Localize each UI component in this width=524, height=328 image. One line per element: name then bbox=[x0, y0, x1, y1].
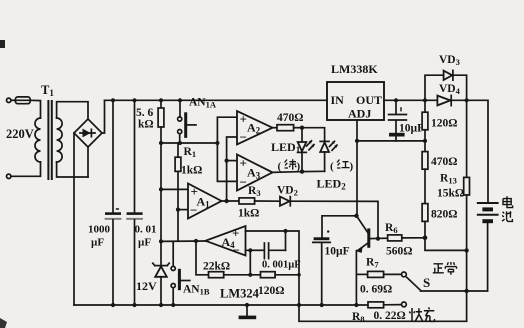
svg-text:0. 001µF: 0. 001µF bbox=[262, 260, 301, 271]
svg-text:15kΩ: 15kΩ bbox=[437, 188, 464, 200]
wire LED top link bbox=[302, 128, 325, 142]
capacitor 10uF output bbox=[389, 100, 407, 141]
wire OUT line bbox=[384, 99, 437, 101]
svg-text:kΩ: kΩ bbox=[138, 119, 154, 131]
scan edge artifact top-left bbox=[0, 40, 5, 48]
wire bridge bottom vertex bbox=[87, 147, 89, 177]
svg-text:10µF: 10µF bbox=[325, 246, 350, 258]
wire bridge negative (left vertex) down bbox=[73, 133, 75, 305]
wire LED bottom link bbox=[302, 170, 325, 172]
label (green) for LED1 bbox=[278, 159, 301, 172]
LED2 red bbox=[320, 141, 337, 172]
zener diode VD 12V bbox=[153, 263, 169, 305]
label battery (dian chi) bbox=[502, 196, 513, 221]
resistor 820 ohm chain bbox=[422, 204, 428, 238]
svg-text:470Ω: 470Ω bbox=[431, 156, 457, 168]
label (red) for LED2 bbox=[330, 160, 354, 173]
wire A4 output line bbox=[161, 240, 206, 242]
svg-text:ADJ: ADJ bbox=[348, 107, 371, 121]
wire A4 plus to ground bbox=[246, 231, 300, 305]
op-amp A2 bbox=[237, 111, 273, 145]
wire return outer bottom bbox=[299, 305, 467, 321]
capacitor 0.001uF bbox=[250, 243, 285, 259]
wire 22k to node bbox=[224, 274, 261, 276]
wire A1 minus input bbox=[178, 209, 188, 211]
resistor R7 0.69 bbox=[356, 271, 401, 277]
svg-text:120Ω: 120Ω bbox=[431, 118, 457, 130]
ground symbol bbox=[239, 305, 257, 319]
pushbutton AN1B bbox=[171, 241, 190, 305]
fuse FU bbox=[15, 97, 30, 104]
wire ADJ vertical to collector bbox=[356, 120, 358, 216]
svg-text:12V: 12V bbox=[136, 279, 157, 293]
svg-text:LM324: LM324 bbox=[220, 287, 260, 301]
wire 22k feedback leg bbox=[196, 241, 209, 275]
wire A1 plus input from reference bbox=[161, 188, 188, 190]
wire node AN1A horizontal bbox=[161, 142, 217, 144]
op-amp A1 bbox=[188, 184, 222, 219]
svg-text:22kΩ: 22kΩ bbox=[203, 261, 230, 273]
wire A1 output line bbox=[222, 200, 240, 202]
svg-text:220V: 220V bbox=[6, 127, 34, 141]
wire bbox=[255, 200, 280, 202]
wire top rail bbox=[105, 99, 328, 101]
switch contact normal bbox=[402, 272, 407, 277]
pushbutton AN1A bbox=[178, 100, 196, 143]
wire VD3 branch bbox=[425, 75, 444, 100]
svg-text:): ) bbox=[297, 161, 301, 173]
svg-text:IN: IN bbox=[331, 93, 345, 107]
svg-text:5. 6: 5. 6 bbox=[136, 107, 154, 119]
diode VD4 bbox=[437, 95, 451, 105]
svg-text:1kΩ: 1kΩ bbox=[181, 165, 202, 177]
resistor 120 ohm chain bbox=[422, 100, 428, 151]
wire bridge positive to top rail bbox=[102, 100, 105, 133]
capacitor 0.01uF bbox=[126, 100, 143, 305]
resistor R8 0.22 bbox=[368, 302, 401, 308]
resistor 120 ohm A4 bbox=[261, 272, 276, 278]
svg-text:µF: µF bbox=[91, 237, 104, 249]
svg-text:+: + bbox=[232, 226, 239, 241]
svg-text:10µF: 10µF bbox=[399, 123, 424, 135]
terminal input top bbox=[7, 98, 11, 102]
wire VD2 to transistor base bbox=[290, 201, 378, 238]
wire bus AN1A node to A2+ and A3- bbox=[217, 117, 237, 181]
wire divider bottom to R13 line bbox=[425, 238, 467, 251]
resistor 22k bbox=[209, 272, 224, 278]
svg-text:+: + bbox=[240, 156, 247, 171]
wire 120 to ground leg bbox=[275, 274, 299, 276]
svg-text:120Ω: 120Ω bbox=[258, 285, 284, 297]
resistor R13 15k bbox=[464, 100, 470, 321]
svg-text:+: + bbox=[240, 112, 247, 127]
diode VD3 bbox=[444, 70, 453, 80]
wire bottom rail bbox=[74, 304, 368, 306]
wire OUT line after VD4 bbox=[451, 100, 488, 202]
svg-text:560Ω: 560Ω bbox=[386, 246, 412, 258]
svg-text:0. 69Ω: 0. 69Ω bbox=[360, 284, 392, 296]
wire VD3 branch right bbox=[453, 75, 467, 100]
svg-text:): ) bbox=[350, 161, 354, 173]
regulator LM338K bbox=[327, 82, 384, 120]
transformer T1 secondary winding bbox=[57, 118, 63, 162]
wire A3 plus branch bbox=[227, 160, 237, 162]
wire ADJ junction line bbox=[357, 140, 425, 142]
switch contact fast-charge bbox=[402, 302, 407, 307]
capacitor 1000uF bbox=[105, 100, 122, 305]
wire bbox=[11, 162, 41, 176]
svg-text:1000: 1000 bbox=[88, 224, 111, 236]
terminal input bottom bbox=[7, 174, 11, 178]
bridge rectifier bbox=[74, 119, 102, 147]
svg-text:820Ω: 820Ω bbox=[431, 209, 457, 221]
label fast charge (kuai chong) bbox=[409, 307, 434, 321]
resistor R3 bbox=[239, 198, 255, 204]
resistor 5.6k vertical bbox=[158, 100, 164, 265]
svg-text:−: − bbox=[240, 175, 247, 190]
op-amp A4 bbox=[206, 226, 246, 256]
scan edge artifact bottom-left bbox=[0, 318, 7, 328]
LED1 green bbox=[298, 128, 315, 172]
svg-text:(: ( bbox=[330, 161, 334, 173]
wire bus A1 out to A2- and A3+ bbox=[227, 137, 237, 201]
capacitor 10uF base bbox=[313, 216, 357, 305]
wire secondary bottom to bridge bbox=[57, 162, 88, 177]
svg-text:LM338K: LM338K bbox=[331, 62, 378, 76]
svg-text:470Ω: 470Ω bbox=[277, 112, 303, 124]
wire A4 minus node leg bbox=[246, 250, 251, 274]
svg-text:OUT: OUT bbox=[356, 93, 382, 107]
svg-text:(: ( bbox=[278, 161, 282, 173]
wire secondary top to bridge bbox=[57, 102, 88, 119]
svg-text:1kΩ: 1kΩ bbox=[238, 208, 259, 220]
wire bbox=[30, 100, 40, 118]
label normal (zheng chang) bbox=[433, 262, 457, 275]
switch S blade bbox=[407, 277, 421, 290]
diode VD2 bbox=[280, 197, 290, 206]
resistor 470 ohm at A2 output bbox=[273, 125, 303, 131]
op-amp A3 bbox=[237, 155, 273, 191]
wire cap to ground wire bbox=[285, 231, 287, 250]
svg-text:0. 22Ω: 0. 22Ω bbox=[374, 310, 406, 322]
transistor VT bbox=[356, 216, 370, 305]
svg-text:0. 01: 0. 01 bbox=[135, 224, 157, 236]
svg-text:−: − bbox=[240, 130, 247, 145]
resistor 470 ohm chain bbox=[422, 152, 428, 204]
wire A3 output bbox=[273, 171, 303, 174]
wire bbox=[11, 99, 15, 101]
wire switch common bbox=[421, 290, 467, 292]
transformer core bbox=[48, 101, 51, 179]
svg-text:µF: µF bbox=[138, 237, 151, 249]
battery bbox=[467, 203, 498, 291]
svg-text:S: S bbox=[423, 275, 430, 290]
transformer T1 primary winding bbox=[35, 118, 41, 162]
resistor R6 560 bbox=[370, 235, 425, 241]
resistor R1 vertical bbox=[175, 143, 181, 241]
